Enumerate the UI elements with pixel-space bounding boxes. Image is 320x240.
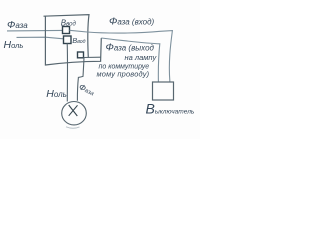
terminal square 1 [63, 27, 70, 34]
terminal square 3 [78, 52, 84, 58]
junction box [44, 15, 90, 58]
wire inside box from square1 to switch (phase to switch), down to switch [70, 30, 173, 82]
paper background [0, 0, 200, 139]
faint double stroke under lamp [66, 127, 80, 128]
svg-text:Ноль: Ноль [46, 88, 67, 100]
svg-text:Ноль: Ноль [4, 39, 24, 51]
terminal square 2 [64, 36, 72, 44]
wire neutral down to lamp [66, 44, 68, 102]
svg-text:Фаза (выход: Фаза (выход [106, 41, 155, 53]
wire neutral-in left [17, 37, 64, 39]
svg-text:на лампу: на лампу [125, 53, 158, 62]
lamp (circle with X) [62, 102, 87, 125]
wire phase-in left [7, 29, 63, 32]
link square3 to bottom-right vertical [84, 56, 102, 58]
wire switched phase return from switch [101, 38, 160, 82]
svg-text:Фаза: Фаза [7, 19, 28, 31]
svg-text:Фаза (вход): Фаза (вход) [109, 15, 155, 27]
svg-text:мому проводу): мому проводу) [97, 69, 150, 78]
wire lamp phase from square3 down with jog [77, 58, 84, 101]
switch box [153, 82, 174, 100]
